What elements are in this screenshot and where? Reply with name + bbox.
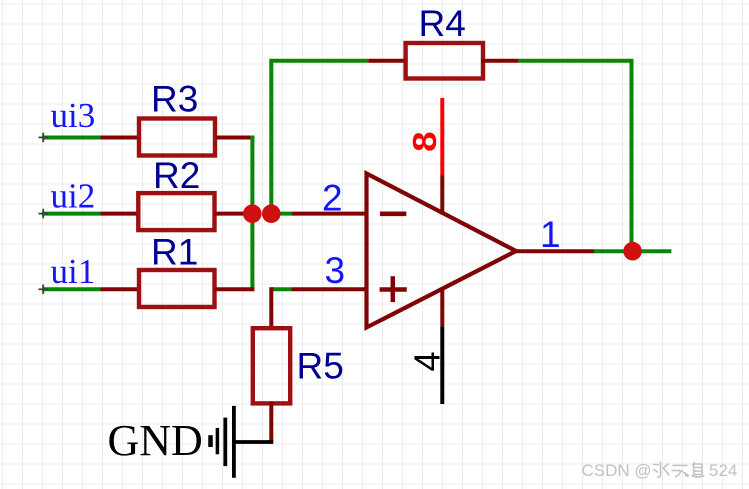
svg-text:CSDN @: CSDN @ xyxy=(582,461,652,480)
wire power pin 4 (black) xyxy=(440,326,444,404)
wire output net (green) xyxy=(594,249,671,253)
wire R3 output down to summing junction (green) xyxy=(250,136,254,214)
wire R5 bottom to ground xyxy=(269,401,273,442)
svg-text:R5: R5 xyxy=(297,346,344,387)
op-amp U1 pin 2 wire xyxy=(292,212,367,216)
op-amp U1 pin 8 stub xyxy=(440,176,444,215)
svg-text:1: 1 xyxy=(540,214,561,255)
op-amp U1 body xyxy=(367,174,517,328)
wire net ui1 (green) xyxy=(42,287,101,291)
op-amp U1 plus sign xyxy=(380,276,407,302)
svg-text:ui3: ui3 xyxy=(51,96,96,135)
op-amp U1 pin 4 stub xyxy=(440,289,444,327)
watermark CSDN xyxy=(582,461,738,480)
pin end cross marker ui2 xyxy=(39,209,49,219)
svg-text:ui2: ui2 xyxy=(51,177,96,216)
wire summing junction down to R1 output (green) xyxy=(250,214,254,292)
resistor R2 left pin xyxy=(101,212,139,216)
resistor R2 right pin xyxy=(215,212,253,216)
svg-text:R1: R1 xyxy=(151,232,198,273)
resistor R4 right pin xyxy=(481,59,519,63)
resistor R3 left pin xyxy=(101,136,141,140)
resistor R3 right pin xyxy=(216,136,254,140)
op-amp U1 minus sign xyxy=(380,212,406,217)
pin end cross marker ui1 xyxy=(39,285,49,295)
svg-text:R4: R4 xyxy=(419,3,466,44)
junction dot A (summing node) xyxy=(243,204,262,223)
op-amp U1 pin 1 output wire xyxy=(514,249,594,253)
wire feedback vertical from summing junction up to R4 (green) xyxy=(271,61,368,214)
resistor R1 body xyxy=(139,270,215,307)
svg-text:R2: R2 xyxy=(153,155,200,196)
op-amp U1 pin 3 wire xyxy=(292,287,367,291)
resistor R2 body xyxy=(138,193,214,230)
resistor R5 body xyxy=(253,328,290,403)
pin end cross marker ui3 xyxy=(39,133,49,143)
wire net ui2 (green) xyxy=(42,212,101,216)
wire pin 3 node down to R5 xyxy=(269,287,273,330)
svg-text:4: 4 xyxy=(406,351,447,371)
resistor R1 left pin xyxy=(101,287,140,291)
svg-text:524: 524 xyxy=(709,461,737,480)
svg-text:3: 3 xyxy=(325,250,346,291)
svg-text:2: 2 xyxy=(322,178,343,219)
ground GND symbol xyxy=(211,406,274,478)
resistor R1 right pin xyxy=(215,287,255,291)
svg-text:ui1: ui1 xyxy=(51,252,96,291)
wire summing node to pin 2 stub (green) xyxy=(271,212,292,216)
wire net ui3 (green) xyxy=(42,136,101,140)
wire feedback top to output node (green) xyxy=(519,61,632,251)
wire power pin 8 (red) xyxy=(440,98,444,176)
junction dot output node xyxy=(623,242,642,261)
svg-text:GND: GND xyxy=(108,416,203,465)
svg-text:R3: R3 xyxy=(151,79,198,120)
resistor R4 body xyxy=(406,43,483,79)
junction dot B (summing node) xyxy=(262,204,281,223)
wire pin 3 stub (green) xyxy=(271,287,291,291)
resistor R3 body xyxy=(139,119,215,156)
resistor R4 left pin xyxy=(368,59,407,63)
svg-text:8: 8 xyxy=(407,131,444,151)
